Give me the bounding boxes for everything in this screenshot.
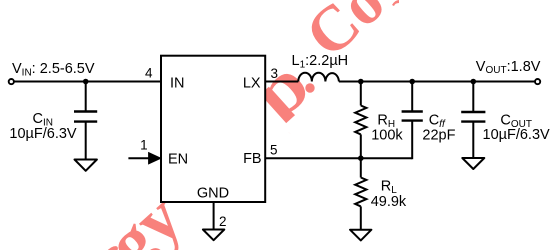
node junction CIN: [83, 79, 89, 85]
svg-text:100k: 100k: [371, 128, 403, 144]
capacitor CIN: [74, 110, 97, 112]
wire RH bottom: [360, 134, 362, 158]
arrowhead EN: [149, 153, 161, 164]
ground COUT: [462, 158, 484, 169]
svg-text:EN: EN: [168, 152, 188, 168]
wire FB row: [265, 157, 412, 159]
wire CIN bottom: [85, 122, 87, 160]
wire RL bottom: [360, 206, 362, 229]
svg-text:1: 1: [140, 138, 148, 153]
capacitor Cff: [402, 110, 423, 112]
wire VIN rail: [14, 81, 161, 83]
ground RL: [350, 230, 371, 241]
capacitor COUT: [461, 111, 485, 113]
svg-text:3: 3: [271, 66, 279, 81]
svg-text:FB: FB: [243, 151, 262, 167]
terminal VIN: [9, 79, 14, 84]
IC U1 body: [161, 56, 265, 202]
svg-text:49.9k: 49.9k: [371, 194, 407, 210]
wire RL top: [360, 158, 362, 177]
terminal VOUT: [535, 79, 540, 84]
svg-text:10µF/6.3V: 10µF/6.3V: [9, 126, 77, 142]
wire GND stub: [213, 202, 215, 230]
resistor RH: [355, 106, 366, 135]
node junction Cff top: [409, 79, 415, 85]
watermark fragment o-tip: [102, 244, 120, 250]
svg-text:5: 5: [270, 143, 278, 158]
svg-text:22pF: 22pF: [422, 128, 455, 144]
wire RH top: [360, 82, 362, 106]
wire CIN top: [85, 82, 87, 112]
wire inductor to VOUT: [339, 81, 535, 83]
wire COUT top: [472, 82, 474, 113]
svg-text:IN: IN: [170, 76, 185, 92]
wire Cff top: [411, 82, 413, 112]
wire Cff bottom: [411, 121, 413, 160]
node junction FB/RL: [358, 155, 364, 161]
wire COUT bottom: [472, 122, 474, 158]
svg-text:10µF/6.3V: 10µF/6.3V: [483, 127, 550, 143]
watermark tail trim: [283, 106, 316, 138]
watermark fragment r-tip: [392, 0, 399, 6]
svg-text:LX: LX: [243, 76, 261, 92]
inductor L1: [298, 73, 339, 82]
node junction COUT: [471, 79, 477, 85]
node junction RH: [358, 79, 364, 85]
svg-text:GND: GND: [197, 186, 229, 202]
ground CIN: [75, 160, 97, 171]
ground IC: [203, 230, 224, 241]
svg-text:4: 4: [145, 66, 153, 81]
watermark fragment dot: [305, 83, 314, 92]
wire LX to inductor: [265, 81, 298, 83]
wire EN: [128, 157, 152, 159]
svg-text:2: 2: [219, 214, 227, 229]
resistor RL: [355, 178, 366, 207]
